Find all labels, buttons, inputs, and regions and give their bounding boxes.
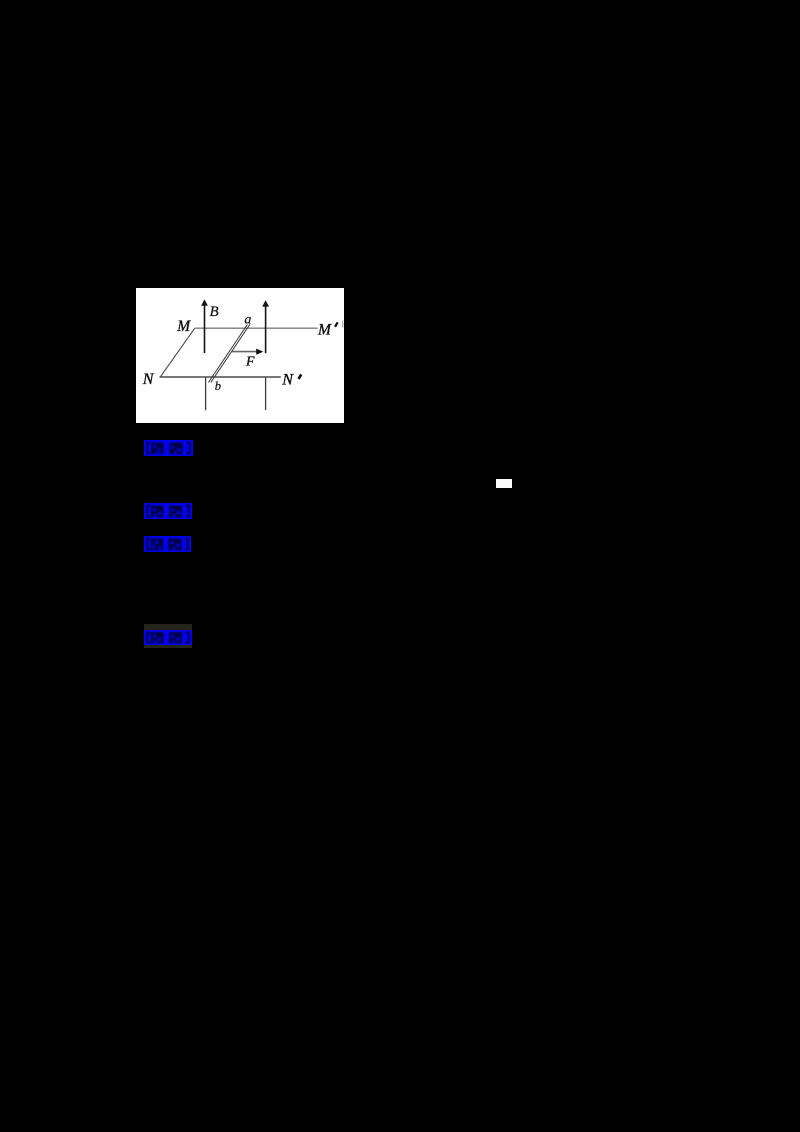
svg-text:a: a (244, 313, 251, 328)
svg-text:B: B (210, 304, 219, 320)
rod ab (double line) (208, 325, 247, 383)
tag block 3 (144, 536, 191, 552)
field line below plane left (205, 378, 207, 411)
halo behind tag block 4 (144, 624, 192, 648)
svg-text:N: N (142, 371, 155, 388)
field line below plane right (265, 378, 267, 410)
B field arrow right (265, 306, 267, 354)
formula fragment (small white box) (496, 479, 512, 488)
force arrow F (232, 351, 257, 353)
figure panel (white box with circuit/physics diagram) (136, 288, 344, 423)
prime of M' (335, 322, 338, 327)
rail NN' (160, 376, 281, 378)
panel background (136, 288, 344, 423)
B field arrow left (204, 305, 206, 354)
prime of N' (299, 374, 302, 379)
svg-text:M: M (176, 318, 191, 335)
svg-text:b: b (215, 379, 221, 393)
tag block 2 (144, 503, 192, 519)
rail MM' (195, 327, 318, 329)
svg-text:N: N (281, 372, 294, 389)
cursor tick at right edge (342, 321, 344, 328)
tag block 4 (144, 630, 192, 645)
svg-text:F: F (245, 355, 255, 370)
left edge MN (160, 328, 195, 377)
svg-text:M: M (317, 322, 332, 339)
tag block 1 (blue highlight with dark glyphs) (144, 440, 193, 456)
